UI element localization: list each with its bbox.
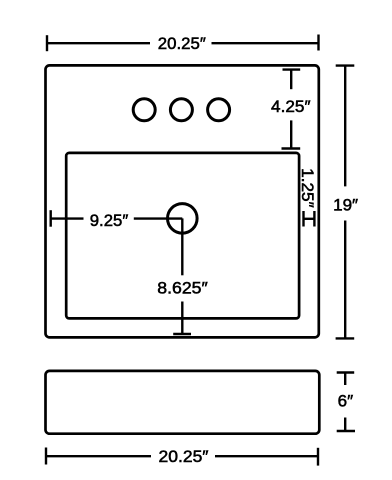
sink side view outline xyxy=(46,371,320,434)
svg-text:8.625″: 8.625″ xyxy=(157,279,208,298)
svg-text:4.25″: 4.25″ xyxy=(271,97,311,116)
sink top view outline xyxy=(46,65,319,337)
svg-text:1.25″: 1.25″ xyxy=(298,168,317,208)
faucet hole right xyxy=(208,99,230,121)
1.25" dimension xyxy=(304,211,315,227)
svg-text:20.25″: 20.25″ xyxy=(158,34,206,53)
bottom dimension 20.25" xyxy=(46,448,318,466)
svg-text:19″: 19″ xyxy=(333,196,358,215)
svg-text:20.25″: 20.25″ xyxy=(159,447,209,466)
basin inner rectangle xyxy=(66,153,299,319)
faucet hole center xyxy=(170,99,192,121)
faucet hole left xyxy=(133,99,155,121)
6" dimension xyxy=(337,373,355,432)
svg-text:9.25″: 9.25″ xyxy=(90,211,129,230)
9.25" dimension xyxy=(51,210,183,227)
svg-text:6″: 6″ xyxy=(338,391,354,410)
8.625" dimension xyxy=(173,218,191,334)
19" dimension xyxy=(336,66,355,339)
4.25" dimension xyxy=(282,70,301,149)
drain circle xyxy=(168,204,198,234)
top dimension 20.25" xyxy=(47,35,319,52)
